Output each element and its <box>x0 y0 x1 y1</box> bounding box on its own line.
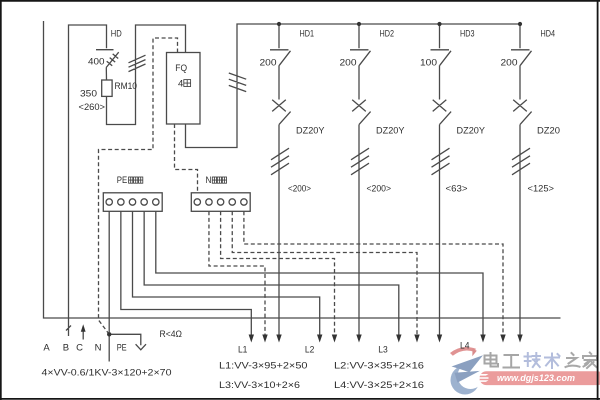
svg-text:DZ20: DZ20 <box>537 126 560 137</box>
svg-text:B: B <box>63 343 69 354</box>
svg-text:N: N <box>95 343 102 354</box>
svg-text:200: 200 <box>340 58 357 69</box>
svg-text:L4:VV-3×25+2×16: L4:VV-3×25+2×16 <box>334 380 424 391</box>
svg-text:RM10: RM10 <box>115 81 138 92</box>
svg-text:L2:VV-3×35+2×16: L2:VV-3×35+2×16 <box>334 361 424 372</box>
svg-text:4: 4 <box>178 79 183 90</box>
svg-text:PE: PE <box>117 343 127 354</box>
svg-text:PE: PE <box>117 175 128 186</box>
svg-text:L3:VV-3×10+2×6: L3:VV-3×10+2×6 <box>219 380 300 391</box>
svg-text:<200>: <200> <box>367 184 392 195</box>
svg-text:100: 100 <box>420 58 437 69</box>
svg-text:L1: L1 <box>238 345 248 356</box>
svg-text:<63>: <63> <box>446 184 468 195</box>
svg-text:HD: HD <box>111 29 122 40</box>
svg-text:C: C <box>76 343 83 354</box>
svg-text:400: 400 <box>88 57 105 68</box>
svg-text:200: 200 <box>260 58 277 69</box>
svg-text:200: 200 <box>501 58 518 69</box>
svg-text:www.dgjs123.com: www.dgjs123.com <box>497 373 576 384</box>
svg-text:<200>: <200> <box>288 184 311 195</box>
svg-text:L4: L4 <box>460 341 470 352</box>
svg-text:DZ20Y: DZ20Y <box>457 126 486 137</box>
svg-text:HD2: HD2 <box>380 29 395 40</box>
svg-text:<260>: <260> <box>79 102 106 113</box>
svg-text:L1:VV-3×95+2×50: L1:VV-3×95+2×50 <box>219 361 308 372</box>
svg-text:HD3: HD3 <box>460 29 475 40</box>
svg-text:L2: L2 <box>305 345 315 356</box>
svg-text:HD1: HD1 <box>300 29 315 40</box>
svg-text:DZ20Y: DZ20Y <box>376 126 405 137</box>
svg-text:DZ20Y: DZ20Y <box>296 126 325 137</box>
svg-text:<125>: <125> <box>528 184 555 195</box>
svg-text:4×VV-0.6/1KV-3×120+2×70: 4×VV-0.6/1KV-3×120+2×70 <box>42 368 172 379</box>
svg-text:350: 350 <box>80 89 97 100</box>
svg-text:A: A <box>43 343 50 354</box>
svg-text:FQ: FQ <box>175 63 187 74</box>
svg-text:N: N <box>206 175 212 186</box>
svg-text:L3: L3 <box>378 345 388 356</box>
svg-text:R<4Ω: R<4Ω <box>160 329 183 340</box>
svg-text:HD4: HD4 <box>541 29 556 40</box>
